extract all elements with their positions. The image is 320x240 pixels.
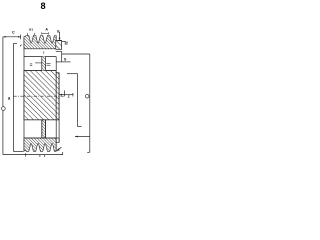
svg-text:B1: B1	[29, 28, 33, 32]
svg-text:S: S	[64, 58, 67, 62]
svg-text:f: f	[66, 41, 68, 46]
svg-text:a: a	[8, 96, 11, 101]
svg-text:A: A	[45, 27, 48, 31]
svg-text:C: C	[12, 30, 15, 35]
svg-text:z: z	[68, 93, 70, 98]
